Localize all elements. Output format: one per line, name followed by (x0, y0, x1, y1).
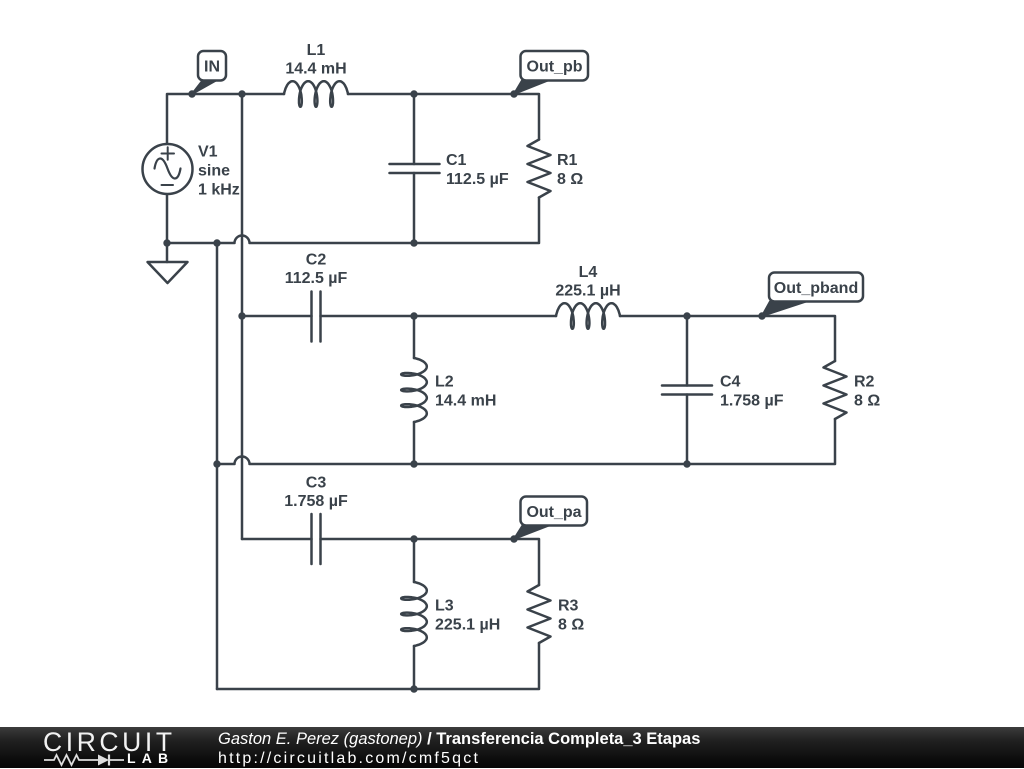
capacitor C1 lead bottom (413, 173, 416, 243)
wire R1 bottom to y=243 (414, 198, 539, 244)
footer url line (218, 750, 480, 768)
svg-text:L1: L1 (307, 42, 326, 59)
node dot L2 bottom (410, 460, 417, 467)
svg-text:1.758 µF: 1.758 µF (720, 393, 784, 410)
node dot Out_pb (510, 90, 517, 97)
svg-text:L2: L2 (435, 374, 454, 391)
wire C3 row right to R3 corner (321, 539, 540, 585)
vertical bus x=242 from IN row down to C3 row (241, 94, 244, 539)
node label Out_pb (514, 51, 588, 94)
inductor L2 coil (401, 358, 427, 422)
node label Out_pa (514, 497, 587, 540)
node dot x=217 y=464 (213, 460, 220, 467)
V1 sine wave (155, 159, 181, 179)
node dot x=242 y=316 (238, 312, 245, 319)
svg-text:Out_pb: Out_pb (527, 59, 583, 76)
svg-text:R1: R1 (557, 152, 578, 169)
vertical bus x=217 from ground row to bottom row (216, 243, 219, 689)
ground triangle (148, 262, 188, 283)
node dot L3 bottom (410, 685, 417, 692)
svg-text:8 Ω: 8 Ω (854, 393, 880, 410)
node dot L2 top (410, 312, 417, 319)
svg-text:Out_pband: Out_pband (774, 280, 858, 297)
resistor R2 zigzag (824, 361, 847, 419)
wire from L1 to R1 corner (348, 94, 539, 140)
svg-text:V1: V1 (198, 144, 218, 161)
svg-text:14.4 mH: 14.4 mH (435, 393, 496, 410)
svg-text:IN: IN (204, 59, 220, 76)
svg-text:C3: C3 (306, 475, 327, 492)
wire C3 row left (242, 538, 312, 541)
wire y=243 with hop over x=242 (167, 194, 414, 243)
wire R2 bottom (687, 419, 835, 464)
node dot Out_pa (510, 535, 517, 542)
node dot C4 top (683, 312, 690, 319)
svg-text:1.758 µF: 1.758 µF (284, 493, 348, 510)
svg-text:L4: L4 (579, 264, 598, 281)
capacitor C4 lead bottom (686, 395, 689, 465)
inductor L3 lead top (413, 539, 416, 582)
inductor L1 coil (284, 81, 348, 107)
footer bar (0, 727, 1024, 768)
svg-text:C2: C2 (306, 252, 327, 269)
wire R3 bottom (217, 643, 539, 689)
svg-text:112.5 µF: 112.5 µF (446, 171, 509, 188)
capacitor C1 lead top (413, 94, 416, 164)
node dot C1 top (410, 90, 417, 97)
node dot C1 bottom (410, 239, 417, 246)
capacitor C4 plates (662, 386, 712, 395)
node dot L3 top (410, 535, 417, 542)
inductor L2 lead bottom (413, 422, 416, 464)
svg-text:sine: sine (198, 163, 230, 180)
voltage source V1 circle (143, 144, 193, 194)
node dot x=242 y=94 (238, 90, 245, 97)
capacitor C4 lead top (686, 316, 689, 386)
inductor L3 lead bottom (413, 646, 416, 689)
wire L4 to R2 corner (620, 316, 835, 361)
node dot V1 bottom (163, 239, 170, 246)
logo resistor-diode glyph (40, 751, 130, 769)
svg-text:C4: C4 (720, 374, 741, 391)
node dot IN (188, 90, 195, 97)
svg-text:L3: L3 (435, 598, 454, 615)
node label Out_pband (762, 273, 863, 317)
resistor R1 zigzag (528, 140, 551, 198)
svg-text:112.5 µF: 112.5 µF (285, 270, 348, 287)
capacitor C3 plates (312, 514, 321, 564)
svg-text:225.1 µH: 225.1 µH (555, 283, 620, 300)
inductor L2 lead top (413, 316, 416, 358)
resistor R3 zigzag (528, 585, 551, 643)
inductor L3 coil (401, 582, 427, 646)
V1 minus sign (162, 184, 174, 186)
wire C2 row left (242, 315, 312, 318)
CircuitLab logo text CIRCUIT (43, 727, 176, 758)
node dot Out_pband (758, 312, 765, 319)
wire C2 to L4 (321, 315, 557, 318)
svg-text:14.4 mH: 14.4 mH (285, 61, 346, 78)
wire y=464 with hop over x=242 (217, 457, 687, 465)
wire top row y=94 from V1 to L1 (167, 94, 284, 144)
svg-text:Out_pa: Out_pa (526, 504, 581, 521)
svg-text:R2: R2 (854, 374, 875, 391)
svg-text:C1: C1 (446, 152, 467, 169)
svg-text:1 kHz: 1 kHz (198, 182, 240, 199)
svg-text:R3: R3 (558, 598, 579, 615)
V1 plus sign (162, 147, 175, 159)
node dot C4 bottom (683, 460, 690, 467)
footer author line (218, 730, 700, 749)
capacitor C2 plates (312, 292, 321, 342)
capacitor C1 plates (390, 164, 440, 173)
svg-text:225.1 µH: 225.1 µH (435, 617, 500, 634)
inductor L4 coil (556, 303, 620, 329)
ground stem (166, 243, 169, 262)
CircuitLab logo text LAB (127, 750, 174, 766)
svg-text:8 Ω: 8 Ω (557, 171, 583, 188)
svg-text:8 Ω: 8 Ω (558, 617, 584, 634)
node dot x=217 y=243 (213, 239, 220, 246)
node label IN (192, 51, 226, 94)
